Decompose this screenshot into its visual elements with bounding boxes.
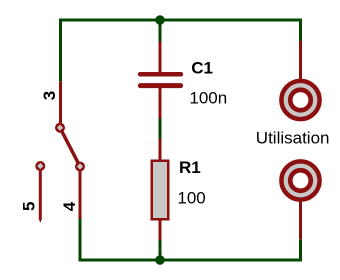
svg-text:Utilisation: Utilisation	[256, 128, 330, 147]
svg-text:3: 3	[40, 91, 59, 100]
svg-text:5: 5	[20, 202, 39, 211]
svg-text:100: 100	[177, 189, 205, 208]
svg-text:100n: 100n	[189, 88, 227, 107]
svg-text:C1: C1	[191, 59, 213, 78]
svg-text:4: 4	[60, 201, 79, 211]
svg-text:R1: R1	[179, 158, 201, 177]
